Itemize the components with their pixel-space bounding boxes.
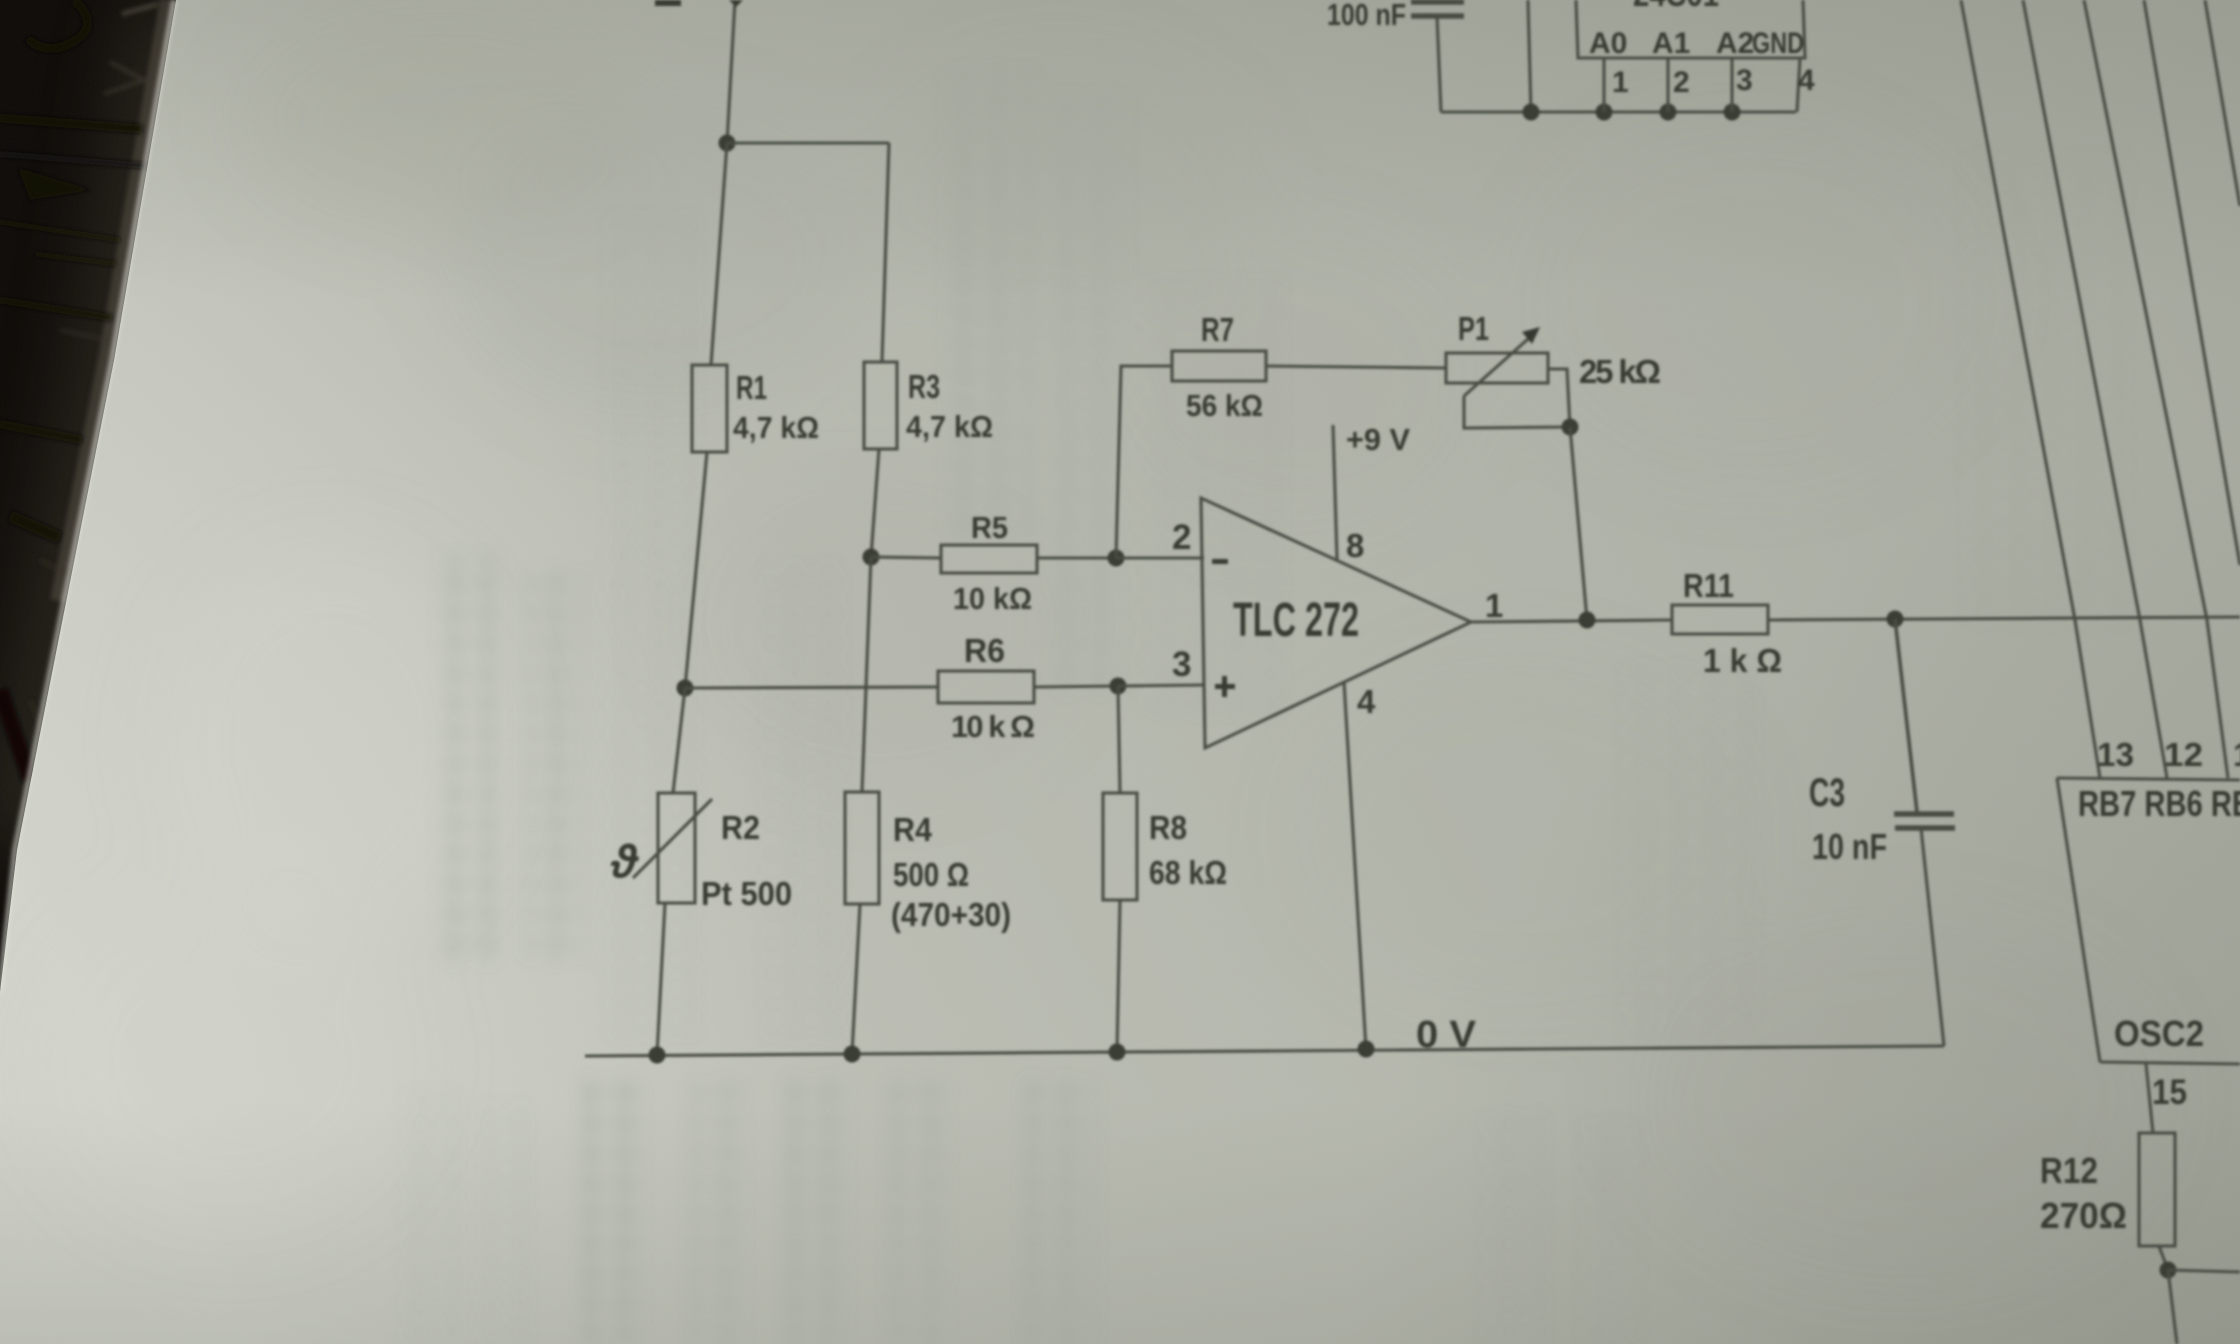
label P1: [1458, 310, 1661, 390]
label pin 2: [1172, 518, 1191, 557]
label A2: [1716, 27, 1754, 60]
resistor R5: [941, 545, 1037, 573]
wire op-amp output: [1471, 620, 1672, 622]
wire R1 top lead: [711, 143, 727, 365]
wire R2 top lead: [673, 688, 685, 793]
wire 0V ground rail: [585, 1046, 1944, 1056]
TEXTLABELS: [610, 0, 2240, 1236]
resistor R1: [692, 365, 727, 452]
label 24C01 pin 4: [1798, 64, 1815, 97]
label R6: [951, 632, 1035, 744]
label R12: [2040, 1150, 2127, 1236]
wire bus line 2: [2023, 0, 2167, 778]
wire bus line 4: [2144, 0, 2240, 565]
wire OSC2 pin15 stub: [2146, 1064, 2153, 1133]
label +9V top clipped: [655, 0, 743, 7]
BLEEDTHROUGH: [400, 70, 2130, 1344]
node R3/R4/R5 junction: [863, 549, 880, 566]
resistor R12: [2139, 1133, 2175, 1246]
node rail pin2: [1660, 104, 1677, 121]
wire R5 to pin2 node: [1037, 556, 1116, 559]
label pin 8: [1346, 527, 1364, 564]
wire supply to R3 branch: [727, 141, 889, 144]
label pin 15: [2152, 1073, 2187, 1112]
wire R7 to P1: [1266, 366, 1446, 368]
wire bus line 3: [2084, 0, 2228, 778]
label 100nF: [1327, 0, 1406, 32]
node output P1 tap: [1579, 612, 1596, 629]
label theta: [610, 835, 640, 887]
node R5/R7 junction: [1108, 550, 1125, 567]
IC PIC box bottom: [2100, 1062, 2240, 1064]
label pin 12: [2164, 736, 2203, 773]
wire P1 right terminal down: [1548, 369, 1570, 427]
wire bus line 5: [2205, 0, 2240, 206]
node output C3 tap: [1887, 611, 1904, 628]
wire node to op-amp pin 2: [1116, 556, 1204, 559]
label R2: [701, 809, 792, 912]
wire R7 feedback riser: [1116, 366, 1172, 558]
node rail R8: [1109, 1044, 1126, 1061]
wire 24C01 pin4 stub: [1797, 58, 1800, 112]
node rail R4: [844, 1046, 861, 1063]
label R7: [1186, 311, 1263, 423]
label A0: [1589, 27, 1627, 60]
wire SDA/SCL drop at 1531: [1528, 0, 1531, 112]
label R3: [906, 368, 993, 444]
op-amp U1 TLC272: [1201, 498, 1471, 748]
IC PIC box top: [2057, 778, 2240, 780]
label RB7 RB6: [2078, 783, 2240, 824]
node rail pin1: [1596, 104, 1613, 121]
label 24C01 pin 2: [1673, 66, 1690, 99]
label R4: [891, 811, 1011, 933]
wire R8 bottom lead: [1117, 900, 1120, 1052]
label R5: [953, 510, 1032, 616]
resistor R3: [864, 362, 897, 449]
wire 24C01 pin1 stub: [1602, 58, 1605, 112]
wire R2 bottom lead: [657, 903, 665, 1055]
label 24C01 pin 3: [1736, 64, 1753, 97]
label 0V: [1416, 1014, 1477, 1056]
wire R8 top lead: [1118, 686, 1120, 793]
label C3: [1809, 771, 1887, 867]
label op-amp plus: [1215, 676, 1235, 697]
resistor R8: [1103, 793, 1137, 900]
wire R12 node right: [2168, 1270, 2240, 1272]
label TLC 272: [1233, 594, 1359, 647]
wire R6 to R8 node: [1034, 686, 1118, 687]
wire bus line 1: [1961, 0, 2100, 778]
wire R5 left lead: [871, 557, 941, 558]
wire node to op-amp pin 3: [1118, 685, 1204, 686]
resistor R2 Pt500: [633, 793, 712, 903]
wire R12 bottom lead: [2159, 1246, 2168, 1270]
paper edge highlight: [0, 0, 174, 992]
wire R3 top lead: [882, 143, 889, 362]
IC 24C01 box: [1576, 0, 1805, 58]
IC PIC box left: [2057, 778, 2100, 1062]
node supply junction: [719, 135, 736, 152]
wire R3 bottom lead: [871, 449, 879, 557]
label pin 1: [1485, 587, 1503, 624]
label 24C01 clipped: [1633, 0, 1719, 14]
node rail pin4: [1358, 1041, 1375, 1058]
node rail 1531: [1523, 104, 1540, 121]
label 24C01 pin 1: [1612, 66, 1629, 99]
node rail R2: [649, 1047, 666, 1064]
potentiometer P1: [1446, 327, 1548, 396]
label R1: [733, 369, 819, 445]
label R11: [1683, 567, 1782, 679]
wire 24C01 ground rail: [1441, 110, 1796, 113]
wire node to R6: [685, 687, 938, 688]
wire R4 top lead: [862, 557, 871, 792]
label op-amp minus: [1212, 559, 1228, 564]
label +9V: [1346, 422, 1410, 457]
resistor R4: [845, 792, 879, 904]
resistor R11: [1672, 605, 1768, 634]
wire P1 wiper loop: [1464, 396, 1570, 428]
node R1/R2/pin3 junction: [677, 680, 694, 697]
node P1 junction: [1562, 419, 1579, 436]
wire P1 node to output: [1570, 427, 1587, 620]
node R6/R8 junction: [1110, 678, 1127, 695]
label pin fragment right edge: [2233, 736, 2240, 773]
capacitor 100nF (top right): [1411, 2, 1464, 112]
label A1: [1652, 27, 1690, 60]
wire +9V pin8: [1333, 425, 1337, 559]
label R8: [1149, 809, 1227, 891]
label pin 4: [1357, 683, 1376, 720]
wire 24C01 pin2 stub: [1666, 58, 1669, 112]
wire op-amp pin 4 down: [1344, 682, 1366, 1049]
resistor R7: [1172, 351, 1266, 381]
node rail pin3: [1724, 104, 1741, 121]
wire R12 node down: [2168, 1270, 2177, 1344]
wire 24C01 pin3 stub: [1730, 58, 1733, 112]
label pin 3: [1172, 645, 1191, 684]
capacitor C3: [1894, 619, 1955, 1046]
DESK: [0, 0, 178, 992]
label pin 13: [2097, 736, 2134, 773]
label GND: [1752, 27, 1804, 60]
wire R4 bottom lead: [852, 904, 860, 1054]
wire +9V supply drop (top left): [727, 0, 735, 143]
label OSC2: [2114, 1013, 2204, 1054]
resistor R6: [938, 671, 1034, 703]
wire R11 to right edge: [1768, 617, 2240, 620]
wire R1 bottom lead: [685, 452, 707, 688]
node R12 junction: [2160, 1262, 2177, 1279]
